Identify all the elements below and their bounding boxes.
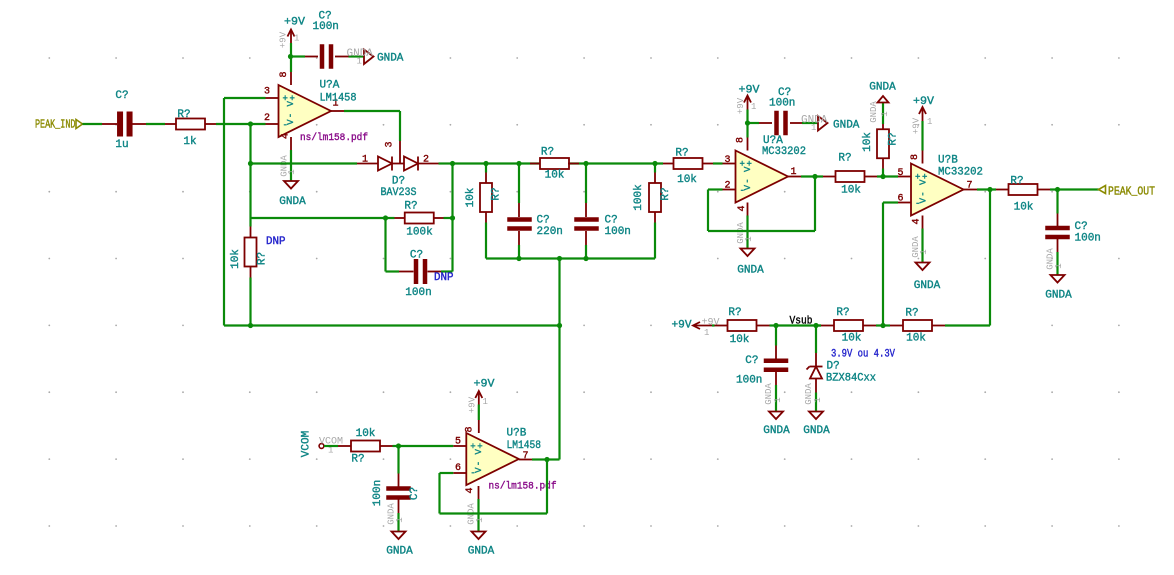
power GNDA below zener [809,412,823,420]
svg-text:4: 4 [737,205,748,211]
junction rail n3 [583,256,588,261]
wire diodes to node A [439,162,453,164]
svg-text:PEAK_OUT: PEAK_OUT [1108,186,1155,199]
resistor R? 10k to GNDA pullup [882,169,884,177]
junction VCOM node [396,443,401,448]
svg-text:10k: 10k [862,132,874,152]
svg-text:+9V: +9V [468,396,478,413]
op-amp U?B LM1458 [466,433,519,485]
svg-text:100k: 100k [633,184,645,211]
svg-text:2: 2 [423,155,429,166]
junction filter n2 [516,161,521,166]
power +9V top-left [290,30,292,44]
junction node A [450,161,455,166]
junction output cap node [1055,187,1060,192]
svg-text:1: 1 [483,397,488,407]
resistor R? 10k divider 3 [890,325,903,327]
svg-text:100k: 100k [406,227,433,239]
svg-text:8: 8 [910,154,921,160]
diode D? BAV23S [357,163,378,165]
svg-text:7: 7 [522,451,528,462]
op-amp U?B MC33202 [911,164,964,216]
svg-text:R?: R? [404,201,417,213]
wire output to Vsub divider [989,190,991,326]
svg-text:+9V: +9V [474,379,495,391]
svg-text:7: 7 [966,181,972,192]
svg-text:-: - [474,461,484,466]
svg-text:100n: 100n [736,375,762,387]
svg-text:R?: R? [836,307,849,319]
junction U?B LM1458 output [544,457,549,462]
junction Vsub node [813,323,818,328]
wire U?A output to diodes [344,110,400,112]
svg-text:V: V [474,449,484,455]
junction filter n1 [483,161,488,166]
svg-text:C?: C? [115,90,128,102]
svg-text:C?: C? [1075,221,1088,233]
svg-text:5: 5 [455,437,461,448]
wire VCOM to R [324,445,338,447]
capacitor C? 220n [518,164,520,204]
svg-text:C?: C? [537,215,550,227]
svg-text:GNDA: GNDA [377,53,404,65]
svg-text:10k: 10k [465,187,477,207]
power +9V for U?B MC33202 [922,107,924,121]
svg-text:LM1458: LM1458 [507,440,542,452]
power GNDA below U?B MC33202 [921,229,923,263]
svg-text:10k: 10k [356,428,376,440]
svg-text:100n: 100n [1075,233,1101,245]
svg-text:1: 1 [395,517,405,522]
wire filter bottom rail [486,257,655,259]
svg-text:GNDA: GNDA [869,101,879,123]
svg-text:-: - [470,469,475,479]
svg-text:100n: 100n [313,21,339,33]
svg-text:C?: C? [409,487,421,500]
svg-text:2: 2 [264,113,270,124]
capacitor C? 100n VCOM [397,446,399,474]
svg-text:+9V: +9V [702,318,720,329]
junction feedback left [383,215,388,220]
wire feedback U?B LM1458 [546,460,548,514]
capacitor C? 100n output [1056,190,1058,214]
resistor R? 10k interstage [823,176,836,178]
svg-text:ns/lm158.pdf: ns/lm158.pdf [300,132,368,144]
svg-text:+9V: +9V [913,96,934,108]
junction output U?A MC33202 [812,174,817,179]
wire pin6 to Vsub [883,201,898,203]
capacitor C? 1u [102,123,117,125]
wire pin3 feedback left [224,97,266,99]
svg-text:R?: R? [838,153,851,165]
svg-text:DNP: DNP [266,236,286,248]
junction inverting-node y163 [248,161,253,166]
resistor R? 10k divider 2 [816,324,821,326]
power GNDA below VCOM cap [392,532,406,540]
svg-text:1: 1 [704,328,709,338]
wire output U?B MC33202 [977,188,996,190]
svg-text:-: - [915,199,920,209]
power +9V for U?B LM1458 [478,391,480,405]
svg-text:R?: R? [177,109,190,121]
svg-text:Vsub: Vsub [790,316,813,328]
svg-text:1: 1 [751,102,756,112]
svg-text:MC33202: MC33202 [938,167,983,179]
svg-text:GNDA: GNDA [279,196,306,208]
wire PEAK_IND to C1 [83,123,103,125]
svg-text:R?: R? [660,187,672,200]
capacitor C? 100n decoupling U?A [748,122,760,124]
svg-text:3: 3 [264,87,270,98]
resistor R? 10k filter top [530,163,541,165]
svg-text:4: 4 [281,133,292,139]
svg-text:1: 1 [294,34,299,44]
svg-text:100n: 100n [769,98,795,110]
junction output node [987,187,992,192]
junction rail n2 [557,256,562,261]
junction Vsub feedback node [880,323,885,328]
wire C1 to R1 [146,123,165,125]
svg-text:+9V: +9V [279,31,289,48]
wire cap to GNDA [802,122,818,124]
svg-text:10k: 10k [730,334,750,346]
wire feedback left rail [251,217,386,219]
resistor R? 10k output [996,189,1009,191]
svg-text:1: 1 [919,249,929,254]
svg-text:10k: 10k [842,333,862,345]
svg-text:10k: 10k [841,185,861,197]
svg-text:V: V [743,166,753,172]
power GNDA below U?A MC33202 [746,216,748,249]
svg-text:U?B: U?B [507,428,527,440]
power GNDA up [878,96,889,103]
wire +9V to pin 8 [290,57,292,73]
junction bottom rail to U?B output [557,323,562,328]
resistor R? 10k to U?A MC33202 [663,163,674,165]
svg-text:VCOM: VCOM [301,431,313,457]
svg-text:C?: C? [745,355,758,367]
capacitor C? 100n DNP [384,218,386,272]
svg-text:U?B: U?B [938,155,958,167]
junction +9V node [288,54,293,59]
svg-text:-: - [743,178,753,183]
svg-text:1: 1 [362,155,368,166]
wire node to diode D1 [251,162,358,164]
svg-text:DNP: DNP [434,272,454,284]
wire junction to pin 8 [746,123,748,138]
wire input node down [249,124,251,164]
svg-text:100n: 100n [405,287,431,299]
svg-text:1: 1 [475,517,485,522]
junction filter n4 [652,161,657,166]
svg-text:1: 1 [287,169,297,174]
svg-text:V: V [919,179,929,185]
junction feedback right [450,215,455,220]
svg-text:+9V: +9V [284,17,305,29]
wire node A down [451,164,453,219]
junction interstage node [880,174,885,179]
svg-text:-: - [282,121,287,131]
svg-text:R?: R? [905,308,918,320]
power GNDA below U?A [290,150,292,181]
junction divider cap node [773,323,778,328]
resistor R? 1k [165,123,176,125]
svg-text:1: 1 [790,167,796,178]
power GNDA right for U?A MC33202 [818,116,828,131]
global label PEAK_OUT [1099,186,1106,194]
wire output U?A MC33202 [801,175,823,177]
resistor R? 10k vertical [485,164,487,173]
svg-text:6: 6 [455,463,461,474]
svg-text:R?: R? [1010,176,1023,188]
svg-text:GNDA: GNDA [914,280,941,292]
junction bottom left rail [248,323,253,328]
svg-text:1: 1 [773,397,783,402]
svg-text:8: 8 [736,137,747,143]
zener diode D? BZX84Cxx [815,326,817,354]
svg-text:-: - [919,191,929,196]
wire to Vsub node [776,324,821,326]
svg-text:6: 6 [897,194,903,205]
svg-text:3: 3 [385,141,396,147]
power GNDA below U?B LM1458 [477,499,479,532]
svg-text:4: 4 [465,487,476,493]
svg-text:C?: C? [605,215,618,227]
svg-text:10k: 10k [906,333,926,345]
junction rail n1 [516,256,521,261]
svg-text:2: 2 [724,181,730,192]
svg-text:10k: 10k [1014,202,1034,214]
svg-text:MC33202: MC33202 [762,146,806,158]
svg-text:-: - [286,113,296,118]
junction +9V U?A MC33202 [745,120,750,125]
svg-text:1: 1 [880,111,890,116]
svg-text:1u: 1u [115,139,128,151]
svg-text:R?: R? [541,147,554,159]
svg-text:PEAK_IND: PEAK_IND [35,119,76,132]
junction filter n3 [583,161,588,166]
wire cap to GNDA [349,55,365,57]
svg-text:GNDA: GNDA [468,546,495,558]
svg-text:+9V: +9V [912,117,922,134]
op-amp U?A MC33202 [736,151,789,203]
capacitor C? 100n top-left [291,55,305,57]
svg-text:+9V: +9V [739,85,760,97]
svg-text:R?: R? [351,454,364,466]
svg-text:100n: 100n [605,226,631,238]
wire output U?B LM1458 [532,458,547,460]
svg-text:D?: D? [392,176,405,188]
svg-text:GNDA: GNDA [803,425,830,437]
svg-text:GNDA: GNDA [386,546,413,558]
svg-text:5: 5 [897,168,903,179]
svg-text:LM1458: LM1458 [320,93,357,105]
svg-text:1k: 1k [183,136,197,148]
svg-text:D?: D? [827,361,840,373]
wire node down to feedback [249,164,251,219]
svg-text:C?: C? [410,250,423,262]
wire feedback U?A MC33202 [708,188,723,190]
svg-text:GNDA: GNDA [1045,290,1072,302]
resistor R? 100k vertical [654,164,656,173]
svg-text:GNDA: GNDA [763,425,790,437]
svg-text:+9V: +9V [672,320,692,332]
junction input node [248,121,253,126]
svg-text:10k: 10k [230,249,242,269]
svg-text:10k: 10k [545,170,565,182]
wire R1 to pin2 U1A [216,123,266,125]
svg-text:10k: 10k [677,174,697,186]
svg-text:U?A: U?A [320,80,340,92]
svg-text:1: 1 [927,117,932,127]
capacitor C? 100n filter [585,164,587,204]
resistor R? 10k VCOM [338,445,352,447]
svg-text:4: 4 [912,218,923,224]
svg-text:R?: R? [491,187,503,200]
svg-text:1: 1 [357,57,362,67]
power +9V left-pointing [693,325,712,327]
op-amp U?A LM1458 [279,85,332,137]
svg-text:1: 1 [813,397,823,402]
wire rail to U?B LM1458 output [558,259,560,460]
capacitor C? 100n divider [775,326,777,346]
svg-text:-: - [739,186,744,196]
svg-text:220n: 220n [537,226,563,238]
svg-text:GNDA: GNDA [737,265,764,277]
svg-text:1: 1 [811,123,816,133]
resistor R? 10k DNP [249,218,251,227]
svg-text:BZX84Cxx: BZX84Cxx [826,373,876,385]
svg-text:100n: 100n [372,480,384,506]
power GNDA below divider cap [769,412,783,420]
svg-text:8: 8 [279,71,290,77]
power +9V for U?A MC33202 [747,96,749,110]
resistor R? 100k feedback [386,217,395,219]
svg-text:1: 1 [1054,263,1064,268]
svg-text:GNDA: GNDA [869,82,896,94]
svg-text:8: 8 [465,426,476,432]
power GNDA right top-left [364,50,374,65]
svg-text:R?: R? [888,132,900,145]
resistor R? 10k divider 1 [712,324,715,326]
wire VCOM node to pin 5 [399,445,454,447]
svg-text:BAV23S: BAV23S [381,187,417,199]
svg-text:R?: R? [675,148,688,160]
wire node A to filter [453,162,664,164]
svg-text:1: 1 [744,236,754,241]
svg-text:R?: R? [728,307,741,319]
svg-text:R?: R? [257,252,269,265]
power GNDA below output cap [1051,275,1065,283]
svg-text:3.9V ou 4.3V: 3.9V ou 4.3V [831,349,895,361]
svg-text:3: 3 [724,155,730,166]
svg-text:+9V: +9V [736,97,746,114]
svg-text:V: V [286,101,296,107]
svg-text:GNDA: GNDA [833,120,860,132]
